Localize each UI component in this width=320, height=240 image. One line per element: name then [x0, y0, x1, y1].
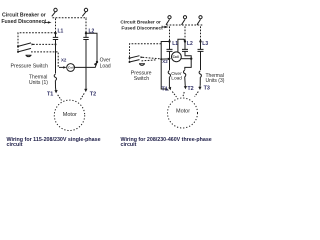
pressure switch diaphragm [26, 55, 32, 56]
contact M leg3 (3ph) [198, 42, 204, 52]
svg-text:L2: L2 [187, 41, 193, 47]
node pressure pole1 pivot (3ph) [129, 57, 131, 59]
svg-text:Coil: Coil [173, 55, 179, 59]
arrowhead X2 to coil [63, 66, 66, 68]
svg-text:T1: T1 [162, 86, 168, 92]
leg1 wire (3ph) [169, 51, 171, 70]
svg-text:Pressure Switch: Pressure Switch [11, 64, 49, 70]
contact M leg2 (3ph) [182, 42, 188, 52]
leg3 thermal heater (3ph) [199, 71, 201, 78]
circuit breaker pole 2 terminal [84, 8, 87, 11]
arrowhead leader breaker label (3ph) [164, 26, 168, 29]
wire L2 drop (dashed) [85, 18, 87, 32]
wire L3 drop 3ph (dashed) [200, 26, 202, 40]
X2 arrow to coil [59, 66, 65, 68]
pressure switch pole 1 blade [18, 43, 31, 47]
pressure switch pole link dashed (3ph) [129, 58, 131, 62]
arrowhead T2 into motor [84, 89, 87, 92]
T3 arrow (3ph) [199, 86, 201, 88]
svg-text:L2: L2 [89, 28, 95, 34]
svg-text:Switch: Switch [134, 76, 149, 82]
svg-text:Load: Load [100, 63, 111, 69]
T2 arrow (3ph) [184, 85, 186, 87]
svg-text:X2: X2 [61, 57, 67, 62]
arrowhead pressure pole1 (3ph) [141, 56, 144, 58]
leg2 wire to T2 (3ph) [184, 77, 187, 85]
svg-text:Load: Load [171, 76, 182, 82]
svg-text:Fused Disconnect: Fused Disconnect [1, 19, 46, 25]
svg-text:Motor: Motor [63, 112, 77, 118]
motor (three phase) [168, 98, 198, 128]
node coil junction dot (3ph) [190, 58, 192, 60]
svg-text:Circuit Breaker or: Circuit Breaker or [120, 19, 161, 25]
leader line circuit breaker label [43, 21, 46, 24]
T2 dashed lead into motor [80, 93, 84, 100]
motor (single phase) [54, 100, 84, 130]
pressure switch pole 2 output (dashed) [31, 52, 58, 68]
breaker pole 3 terminal (3ph) [199, 16, 202, 19]
node pressure switch pole2 pivot [17, 51, 19, 53]
svg-text:Coil: Coil [68, 66, 74, 70]
arrowhead coil to overload junction [94, 62, 97, 66]
node overload junction dot [96, 61, 98, 63]
T1 dashed lead into motor [58, 95, 62, 101]
arrowhead T2 motor (3ph) [184, 86, 187, 89]
svg-text:T3: T3 [204, 86, 210, 92]
T3 dashed lead into motor (3ph) [195, 92, 199, 97]
node L2 dot (3ph) [184, 40, 186, 42]
wire L2 branch to overload [86, 33, 97, 61]
node pole1 output junction [55, 43, 57, 45]
arrowhead X2 coil (3ph) [168, 58, 171, 60]
arrowhead T1 into motor [55, 90, 58, 93]
breaker pole 2 blade (3ph) [182, 19, 186, 24]
contactor contact M L1 [53, 33, 58, 39]
breaker pole 2 terminal (3ph) [183, 16, 186, 19]
svg-text:Circuit Breaker or: Circuit Breaker or [2, 13, 46, 19]
coil C (magnetic starter) [67, 64, 75, 72]
pressure switch pole2 blade (3ph) [130, 60, 140, 62]
X2 arrow to coil (3ph) [161, 58, 170, 60]
svg-text:T2: T2 [90, 92, 96, 98]
svg-text:Units (3): Units (3) [206, 78, 225, 84]
wire L1 drop (dashed) [55, 18, 57, 32]
arrowhead T1 motor (3ph) [168, 87, 171, 90]
leg2 thermal heater (3ph) [183, 70, 185, 77]
breaker pole 1 terminal (3ph) [168, 16, 171, 19]
bridge wire coil to L2 [178, 39, 185, 52]
node L3 dot (3ph) [199, 40, 201, 42]
svg-text:T1: T1 [47, 91, 53, 97]
T1 arrow into motor [55, 88, 57, 91]
svg-text:Fused Disconnect: Fused Disconnect [121, 25, 163, 31]
T1 arrow (3ph) [168, 86, 171, 89]
svg-text:Motor: Motor [176, 108, 190, 114]
circuit breaker pole 1 blade [52, 12, 55, 16]
svg-text:L3: L3 [202, 41, 208, 47]
T2 dashed lead into motor (3ph) [183, 92, 184, 96]
contact M leg1 (3ph) [167, 42, 173, 52]
pressure switch feed (dashed) [18, 33, 56, 46]
breaker mechanical link (dashed) [53, 17, 88, 19]
node L2 junction dot [85, 32, 87, 34]
pressure switch pole2 output dashed (3ph) [142, 60, 157, 61]
wire L2 drop 3ph (dashed) [184, 26, 186, 40]
svg-text:X2: X2 [162, 59, 168, 64]
node L1 junction dot [54, 32, 56, 34]
pressure switch pole1 blade (3ph) [130, 56, 140, 58]
node rail X2 junction (3ph) [160, 58, 162, 60]
circuit breaker pole 2 blade [82, 12, 85, 16]
coil right wire (3ph) [181, 58, 191, 60]
T2 arrow into motor [85, 88, 87, 90]
pressure switch pole 2 link (dashed) [17, 46, 19, 52]
svg-text:L1: L1 [58, 28, 64, 34]
pressure switch pole1 output dashed (3ph) [143, 57, 162, 59]
thermal unit heater [54, 74, 56, 80]
leader line breaker label (3ph) [161, 26, 164, 29]
svg-text:L1: L1 [172, 41, 178, 47]
leg3 wire (3ph) [200, 51, 202, 70]
coil output wire to overload junction [75, 63, 97, 67]
leg3 wire to T3 (3ph) [199, 77, 201, 86]
arrowhead leader circuit breaker label [48, 21, 52, 23]
wire L1 leg [55, 40, 57, 74]
wire L2 leg [85, 40, 87, 89]
circuit breaker pole 1 terminal [54, 8, 57, 11]
svg-text:Units (1): Units (1) [29, 80, 48, 86]
wire L1 leg to T1 [54, 81, 56, 88]
breaker pole 3 blade (3ph) [197, 19, 201, 24]
svg-text:circuit: circuit [121, 142, 137, 148]
leg1 thermal heater (3ph) [168, 71, 170, 78]
breaker link 3ph (dashed) [167, 24, 204, 26]
T1 dashed lead into motor (3ph) [172, 92, 176, 97]
node pressure switch pole1 pivot [17, 45, 19, 47]
control feed dashed to pressure switch [130, 44, 162, 58]
leg2 jog wire (3ph) [185, 51, 191, 69]
arrowhead rail T1 corner (3ph) [165, 88, 169, 91]
control feed wire from L1 / left rail to T1 [161, 42, 169, 90]
coil (3ph starter), white fill over legs [172, 52, 182, 62]
arrowhead T3 motor (3ph) [198, 87, 201, 90]
arrowhead pressure switch pole1 [32, 43, 35, 45]
contactor contact M L2 [83, 33, 88, 39]
node L1 dot (3ph) [168, 40, 170, 42]
svg-text:circuit: circuit [7, 142, 23, 148]
wire L1 drop 3ph (dashed) [169, 26, 171, 40]
pressure switch pole 2 blade [18, 48, 31, 52]
leg1 wire to T1 (3ph) [168, 77, 170, 86]
svg-text:T2: T2 [187, 86, 193, 92]
breaker pole 1 blade (3ph) [166, 19, 170, 24]
pressure switch pole 1 output (dashed) [33, 43, 56, 45]
pressure switch diaphragm (3ph) [139, 64, 145, 66]
node pressure pole2 pivot (3ph) [129, 61, 131, 63]
